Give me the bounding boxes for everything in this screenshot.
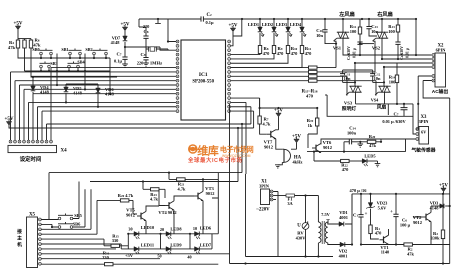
- svg-text:U: U: [297, 224, 301, 229]
- wire +5V top rail: [203, 18, 417, 20]
- svg-text:SB0: SB0: [32, 47, 39, 52]
- svg-text:右风扇: 右风扇: [377, 10, 393, 18]
- wire X4 pin risers: [11, 68, 52, 140]
- svg-text:4kHz: 4kHz: [292, 160, 302, 165]
- buzzer HA 4kHz: [278, 149, 303, 165]
- svg-text:470: 470: [277, 51, 284, 56]
- LED LED5: [362, 154, 377, 167]
- svg-text:100 μ: 100 μ: [400, 223, 411, 228]
- switch SB5: [41, 182, 82, 220]
- label set-time: [20, 155, 42, 163]
- label right-fan: [377, 10, 393, 18]
- wire under-IC link: [47, 123, 251, 125]
- watermark weiku logo: [187, 144, 254, 164]
- crystal B 1MHz: [146, 46, 168, 51]
- resistor R5: [23, 40, 26, 48]
- svg-text:330: 330: [102, 255, 109, 260]
- resistor R10 470: [231, 46, 298, 64]
- svg-text:470: 470: [375, 231, 382, 236]
- svg-text:IC1: IC1: [199, 72, 208, 78]
- svg-text:AC输出: AC输出: [432, 88, 449, 95]
- svg-text:VS4: VS4: [371, 98, 379, 103]
- svg-text:C7: C7: [394, 112, 399, 117]
- wire X5 fan-out: [41, 189, 229, 258]
- svg-text:SB5: SB5: [74, 213, 82, 218]
- diode VD6 4148: [96, 84, 115, 108]
- switch SB6: [41, 189, 85, 228]
- svg-text:R20 4.7k: R20 4.7k: [118, 193, 134, 198]
- switch SB4: [68, 60, 86, 73]
- svg-text:330: 330: [112, 238, 119, 243]
- wire crystal to IC pins: [167, 19, 176, 50]
- svg-text:VS1: VS1: [333, 46, 342, 51]
- capacitor C6 100u: [390, 194, 410, 245]
- svg-text:20: 20: [160, 227, 164, 232]
- LED LED9 50: [157, 242, 182, 258]
- ground (LED5): [375, 161, 381, 167]
- connector X3 3PIN: [419, 115, 430, 144]
- resistor R2 47k: [404, 243, 415, 256]
- diode VD2 4001: [338, 242, 353, 258]
- transistor VT5 9012: [126, 206, 159, 234]
- svg-text:1140: 1140: [381, 250, 390, 255]
- LED LED7 40: [187, 242, 212, 259]
- capacitor C1 470u/16: [353, 194, 368, 246]
- svg-text:维库: 维库: [197, 144, 218, 158]
- svg-text:0.1μ: 0.1μ: [114, 59, 122, 64]
- svg-text:LED6: LED6: [200, 226, 212, 231]
- svg-text:风扇: 风扇: [377, 104, 387, 111]
- ground (C9): [143, 63, 149, 66]
- svg-text:100: 100: [350, 29, 357, 34]
- wire gate risers VS1 VS2: [334, 41, 375, 72]
- ground (C7): [122, 64, 128, 67]
- svg-text:3PIN: 3PIN: [419, 119, 430, 124]
- wire bottom rail: [230, 262, 450, 264]
- resistor R13 100 (snubber): [388, 19, 399, 42]
- resistor R23 4.7k: [142, 180, 165, 201]
- svg-text:9012: 9012: [264, 145, 273, 150]
- label ~220V: [256, 208, 270, 213]
- LED LED8 20: [160, 227, 183, 240]
- capacitor C9 220: [137, 49, 162, 66]
- svg-text:0.1μ: 0.1μ: [206, 20, 214, 25]
- connector X4 (set time): [8, 145, 67, 153]
- svg-text:LED11: LED11: [141, 242, 154, 247]
- svg-text:照明灯: 照明灯: [342, 105, 357, 112]
- wire LED row 2: [121, 233, 212, 249]
- LED LED10 30: [128, 225, 155, 239]
- svg-text:C5 630V: C5 630V: [347, 46, 351, 60]
- diode VD5 4148: [64, 84, 83, 104]
- svg-text:LED7: LED7: [200, 242, 212, 247]
- resistor R3 330k: [430, 194, 444, 265]
- IC1 pin circles: [176, 40, 230, 112]
- capacitor C10 10n: [316, 19, 336, 44]
- zener VD23 5.6V: [366, 194, 388, 222]
- power +5V rail symbol (keypad pull-ups): [14, 22, 31, 41]
- transformer T 7.5V: [317, 196, 340, 258]
- capacitor C8: [139, 27, 149, 49]
- op-amp/controller IC1 SP200-550: [181, 40, 226, 120]
- svg-text:设定时间: 设定时间: [20, 155, 42, 163]
- svg-text:X4: X4: [61, 148, 68, 153]
- svg-text:LED9: LED9: [170, 242, 182, 247]
- capacitor C7 0.1u: [114, 52, 128, 65]
- resistor R16 330: [41, 251, 218, 266]
- svg-text:47k: 47k: [8, 45, 16, 50]
- svg-text:10n: 10n: [344, 76, 351, 81]
- capacitor C6 0.01u/630V: [395, 42, 409, 60]
- svg-text:LED10: LED10: [141, 225, 155, 230]
- svg-text:4001: 4001: [339, 253, 348, 258]
- svg-text:LED5: LED5: [364, 154, 376, 159]
- wire DC top rail: [352, 193, 450, 210]
- capacitor C5 0.01u/630V: [347, 42, 363, 60]
- svg-text:470: 470: [305, 51, 312, 56]
- svg-text:9012: 9012: [126, 213, 135, 218]
- ground (C14): [358, 141, 364, 148]
- power +5V (keypad bus): [5, 117, 254, 128]
- svg-text:LED8: LED8: [170, 227, 182, 232]
- label VS3 lighting: [342, 101, 357, 113]
- triac VS1: [333, 19, 432, 55]
- wire lighting loop: [325, 95, 413, 116]
- resistor R6 47k: [29, 38, 41, 49]
- transistor VT1 1140: [380, 229, 391, 255]
- svg-text:~220V: ~220V: [256, 208, 270, 213]
- svg-text:10n: 10n: [316, 33, 323, 38]
- transistor VT4 9012: [158, 189, 194, 234]
- transistor VT7 9012: [264, 130, 283, 150]
- LED LED1: [248, 19, 264, 46]
- svg-text:220: 220: [137, 61, 144, 66]
- svg-text:SB2: SB2: [85, 47, 92, 52]
- power +5V (regulator out): [439, 184, 448, 194]
- fuse F1 3A: [273, 194, 318, 206]
- svg-text:10n: 10n: [374, 76, 381, 81]
- svg-text:SP200-550: SP200-550: [192, 80, 214, 85]
- connector X4 pins 1-10: [9, 140, 52, 143]
- wire mains left rail: [246, 174, 334, 257]
- ground (buzzer): [275, 165, 281, 168]
- svg-text:C7: C7: [117, 52, 122, 57]
- resistor 220 (osc): [143, 24, 150, 34]
- LED LED2: [262, 19, 278, 46]
- svg-text:R20: R20: [369, 134, 376, 139]
- diode VD7 4148: [111, 36, 128, 58]
- diode VD3 4148: [430, 201, 451, 211]
- svg-text:330k: 330k: [430, 236, 440, 241]
- svg-text:全球最大IC电子市场: 全球最大IC电子市场: [187, 156, 243, 164]
- svg-text:47k: 47k: [369, 143, 376, 148]
- svg-text:C9: C9: [141, 52, 146, 57]
- switch SB0: [32, 47, 52, 59]
- wire keypad columns: [56, 54, 117, 95]
- svg-text:4.7k: 4.7k: [150, 197, 158, 202]
- connector X5 pins: [39, 218, 42, 265]
- wire X3 pin1 feed: [416, 103, 420, 129]
- resistor R20b 4.7k: [97, 193, 137, 214]
- svg-text:3PIN: 3PIN: [259, 184, 270, 189]
- transistor VT3 9012: [194, 178, 215, 234]
- svg-text:30: 30: [128, 227, 132, 232]
- svg-text:SB6: SB6: [73, 222, 81, 227]
- capacitor C14 100n: [344, 126, 360, 145]
- LED LED6 10: [193, 226, 212, 240]
- triac VS3: [346, 82, 362, 104]
- svg-text:4148: 4148: [111, 40, 121, 45]
- svg-text:470 μ /16: 470 μ /16: [350, 188, 368, 193]
- diode VD1 4001: [338, 194, 352, 245]
- capacitor C12 10n: [370, 70, 381, 82]
- resistor R15 330: [104, 234, 128, 248]
- resistor R8 470: [231, 46, 270, 57]
- wire oscillator rail: [139, 18, 201, 27]
- triac VS2: [372, 19, 432, 60]
- svg-text:接: 接: [17, 228, 22, 235]
- svg-text:C1: C1: [353, 213, 358, 218]
- power +5V (VT7): [274, 109, 283, 130]
- connector X3 pins: [416, 128, 419, 141]
- wire IC outputs to alarm bus: [230, 98, 260, 263]
- svg-text:+: +: [390, 210, 393, 215]
- switch SB2: [85, 47, 107, 59]
- resistor R14 100: [389, 63, 399, 105]
- power +5V (IC1 Vdd): [229, 19, 242, 46]
- svg-text:470: 470: [342, 167, 349, 172]
- svg-text:3A: 3A: [287, 201, 293, 206]
- svg-text:9012: 9012: [413, 220, 422, 225]
- resistor R9 470: [231, 46, 284, 59]
- wire LED row 1: [128, 198, 218, 234]
- svg-text:100: 100: [388, 29, 395, 34]
- wire C11 C12 tie: [343, 70, 386, 84]
- svg-text:1MHz: 1MHz: [150, 61, 162, 66]
- wire VT6 emitter row: [307, 139, 406, 161]
- resistor R4 47k: [8, 40, 20, 50]
- svg-text:气敏传感器: 气敏传感器: [411, 147, 436, 154]
- svg-text:1k: 1k: [308, 123, 313, 128]
- wire keypad row 1: [18, 48, 117, 77]
- resistor R20 47k (sensor): [360, 134, 382, 148]
- wire gate risers VS3 VS4: [346, 76, 376, 95]
- LED LED4: [290, 19, 306, 46]
- svg-text:LED4: LED4: [290, 22, 302, 27]
- connector X1 3PIN (mains): [259, 180, 270, 205]
- wire X2 pin5 drop: [418, 76, 432, 104]
- capacitor C2 0.1u: [201, 13, 214, 25]
- resistor R7 4.7k: [258, 116, 271, 134]
- wire gas sensor signal: [381, 139, 416, 142]
- label VS4 fan: [371, 98, 387, 111]
- wire VD5 VD6 top tie: [66, 83, 98, 85]
- svg-text:VS2: VS2: [372, 46, 381, 51]
- svg-text:7.5V: 7.5V: [321, 212, 330, 217]
- diode VD4 4148: [31, 76, 50, 95]
- resistor R22 470: [341, 159, 363, 172]
- svg-text:40: 40: [187, 255, 191, 260]
- svg-text:5.6V: 5.6V: [378, 205, 387, 210]
- connector X2 pins: [432, 54, 435, 82]
- wire regulator mid rail: [335, 243, 450, 245]
- capacitor C11 10n: [340, 70, 351, 82]
- power +5V (buzzer): [291, 135, 301, 150]
- capacitor C7 0.01u/630V (mains): [382, 104, 407, 124]
- svg-text:100n: 100n: [347, 130, 357, 135]
- resistor R12 100 (snubber): [350, 19, 362, 42]
- wire sensor row left: [343, 142, 345, 153]
- wire mains neutral: [273, 192, 278, 257]
- svg-text:LED1: LED1: [248, 22, 259, 27]
- svg-text:LED3: LED3: [276, 22, 288, 27]
- label gas sensor: [411, 147, 436, 154]
- connector X2 6PIN: [435, 44, 446, 88]
- wire display frame: [49, 173, 242, 220]
- svg-text:C2: C2: [206, 13, 211, 18]
- wire X3 pin2 feed: [413, 116, 416, 134]
- svg-text:9012: 9012: [323, 145, 332, 150]
- wire +5V to IC pin: [125, 47, 176, 50]
- transistor VT6 9012: [312, 139, 416, 153]
- svg-text:0.01 μ: 0.01 μ: [406, 47, 410, 58]
- svg-text:6V: 6V: [421, 129, 426, 134]
- svg-text:47k: 47k: [407, 251, 414, 256]
- resistor R1 470: [369, 222, 382, 239]
- resistor R19 1k: [307, 108, 319, 148]
- svg-text:6PIN: 6PIN: [436, 48, 447, 53]
- svg-text:470: 470: [291, 51, 298, 56]
- connector X5 (to main unit): [27, 213, 38, 268]
- wire X2 pin4 run: [383, 66, 432, 83]
- wire AC rail right drop: [415, 19, 417, 56]
- wire keypad/X4 bus lines to IC1: [11, 68, 176, 112]
- svg-text:主: 主: [17, 235, 22, 242]
- capacitor C13 10n: [366, 19, 378, 36]
- power +5V (VD7): [121, 23, 130, 37]
- connector X1 pins: [270, 190, 273, 201]
- wire triac gates from C10 line: [335, 43, 374, 45]
- label 470u/16: [350, 188, 368, 193]
- wire X2 pin6 drop: [423, 81, 450, 264]
- svg-text:470: 470: [263, 51, 270, 56]
- svg-text:+: +: [365, 212, 368, 217]
- LED LED11: [125, 242, 154, 258]
- svg-text:430V: 430V: [296, 236, 307, 241]
- resistors R15-R18 470 (triac gates): [231, 66, 376, 99]
- svg-text:10: 10: [193, 226, 197, 231]
- label left-fan: [339, 10, 355, 18]
- wire X2 pin3 run: [354, 62, 432, 83]
- resistor R11 470: [231, 46, 312, 68]
- svg-text:C6 630V: C6 630V: [400, 46, 404, 60]
- svg-text:SB3: SB3: [50, 61, 57, 66]
- label to-main-unit: [17, 228, 22, 248]
- svg-text:SB1: SB1: [61, 47, 68, 52]
- resistor R21 4.7k: [168, 172, 218, 192]
- switch SB3: [40, 61, 58, 72]
- svg-text:4001: 4001: [339, 215, 348, 220]
- varistor RV 430V: [296, 194, 309, 257]
- svg-text:0.01 μ: 0.01 μ: [353, 47, 357, 58]
- switch SB1: [61, 47, 81, 59]
- svg-text:9012: 9012: [206, 191, 215, 196]
- svg-text:机: 机: [17, 241, 22, 248]
- svg-text:470: 470: [306, 94, 314, 99]
- svg-text:4.7k: 4.7k: [263, 122, 271, 127]
- transistor VT2 9012: [413, 206, 432, 245]
- wire alarm rail: [259, 98, 319, 109]
- svg-text:LED2: LED2: [262, 22, 273, 27]
- svg-text:VS3: VS3: [344, 101, 353, 106]
- label AC output: [432, 88, 449, 95]
- svg-text:电子市场网: 电子市场网: [220, 145, 254, 154]
- svg-text:4.7k: 4.7k: [178, 186, 186, 191]
- triac VS4: [375, 82, 391, 104]
- svg-text:左风扇: 左风扇: [339, 10, 355, 18]
- svg-text:4148: 4148: [73, 91, 83, 96]
- svg-text:0.01 μ /630V: 0.01 μ /630V: [382, 119, 406, 124]
- LED LED3: [276, 19, 292, 46]
